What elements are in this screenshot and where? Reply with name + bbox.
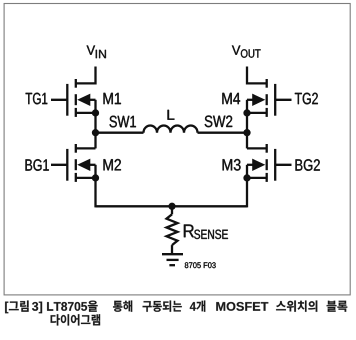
label M1 [104,93,121,104]
wire SW2 rail right [198,132,248,134]
resistor RSENSE zigzag [167,214,178,245]
wire M3 source down to bottom rail [246,178,248,208]
node SW1 junction [92,129,99,136]
label SW2 [205,116,233,128]
wire M4 source to SW2 [246,113,248,133]
node VOUT wire stub [246,67,248,85]
label RSENSE [184,225,194,238]
caption line 1 [5,301,347,314]
label M4 [222,93,240,104]
label TG1 [26,93,48,105]
label 8705 F03 [185,262,216,268]
node SW2 junction [243,129,250,136]
node VIN wire stub [94,67,96,85]
label BG2 [296,159,320,171]
ground [162,253,183,255]
label VOUT [232,46,241,55]
label TG2 [295,93,318,105]
transistor M2 [51,164,67,166]
wire bottom rail [96,205,248,207]
label M2 [104,159,121,170]
label SW1 [110,116,136,128]
junction M3 source [243,174,250,181]
label VIN [87,46,96,55]
wire SW1 rail left [96,132,144,134]
junction RSENSE tap [168,203,175,210]
transistor M4 [275,99,291,101]
transistor M3 [275,164,291,166]
transistor M1 [51,99,67,101]
label M3 [223,159,241,171]
label L [168,110,175,120]
inductor L [144,125,198,132]
label BG1 [26,159,49,171]
caption line 2 [51,314,101,325]
wire M2 source down to bottom rail [94,178,96,208]
wire SW1 to M2 drain [94,133,96,149]
wire RSENSE to ground [171,245,173,254]
wire M1 source to SW1 [94,113,96,133]
wire SW2 to M3 drain [246,133,248,149]
junction M2 source [92,174,99,181]
wire rail to RSENSE [171,206,173,214]
junction M1 source [92,109,99,116]
junction M4 source [243,109,250,116]
